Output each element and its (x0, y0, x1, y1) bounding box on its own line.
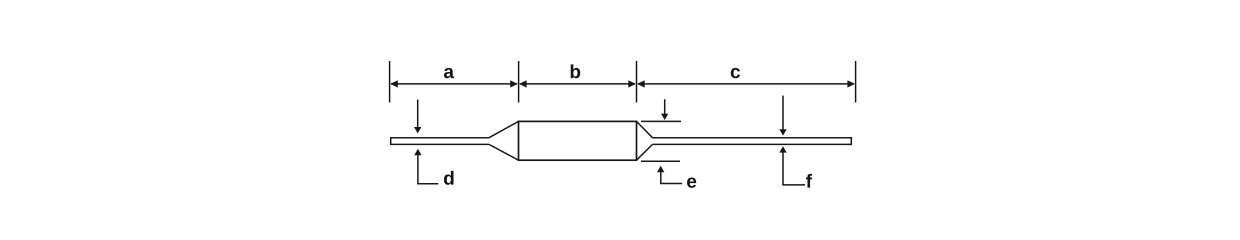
arrowhead a left (390, 80, 398, 87)
leader line for label d (417, 183, 438, 185)
arrowhead b right (628, 80, 636, 87)
arrow d up shaft (417, 155, 419, 184)
label a (444, 68, 454, 78)
wire: right lead of fuse (653, 138, 852, 145)
extension tick T2 (boundary a/b) (518, 61, 520, 103)
arrowhead a right (510, 80, 518, 87)
leader line for label e (660, 183, 682, 185)
label b (571, 64, 581, 78)
arrow f down shaft (782, 96, 784, 131)
extension tick T4 (right end of dimension c) (855, 61, 857, 103)
arrowhead d up (414, 149, 421, 155)
dimension line b (520, 83, 635, 85)
fuse body (case) (519, 121, 637, 160)
extension tick T3 (boundary b/c) (636, 61, 638, 103)
arrow e up shaft (660, 172, 662, 184)
label f (806, 174, 812, 188)
arrow d down shaft (417, 100, 419, 129)
arrow e down shaft (664, 99, 666, 115)
extension tick T1 (left end of dimension a) (389, 61, 391, 103)
arrow f up shaft (782, 152, 784, 185)
right taper cone (epoxy seal) (637, 121, 653, 160)
label c (731, 68, 740, 78)
extension line e top (641, 120, 681, 122)
extension line e bottom (641, 160, 680, 162)
dimension line c (638, 83, 854, 85)
arrowhead d down (414, 127, 421, 133)
arrowhead e up (657, 166, 664, 172)
arrowhead f up (779, 146, 786, 152)
left taper cone of fuse body (489, 121, 519, 160)
leader line for label f (782, 184, 805, 186)
arrowhead b left (519, 80, 527, 87)
arrowhead f down (779, 129, 786, 135)
arrowhead c right (847, 80, 855, 87)
dimension line a (391, 83, 517, 85)
arrowhead c left (637, 80, 645, 87)
label e (687, 177, 696, 187)
wire: left lead of fuse (391, 138, 489, 145)
arrowhead e down (661, 114, 668, 120)
label d (444, 171, 454, 185)
